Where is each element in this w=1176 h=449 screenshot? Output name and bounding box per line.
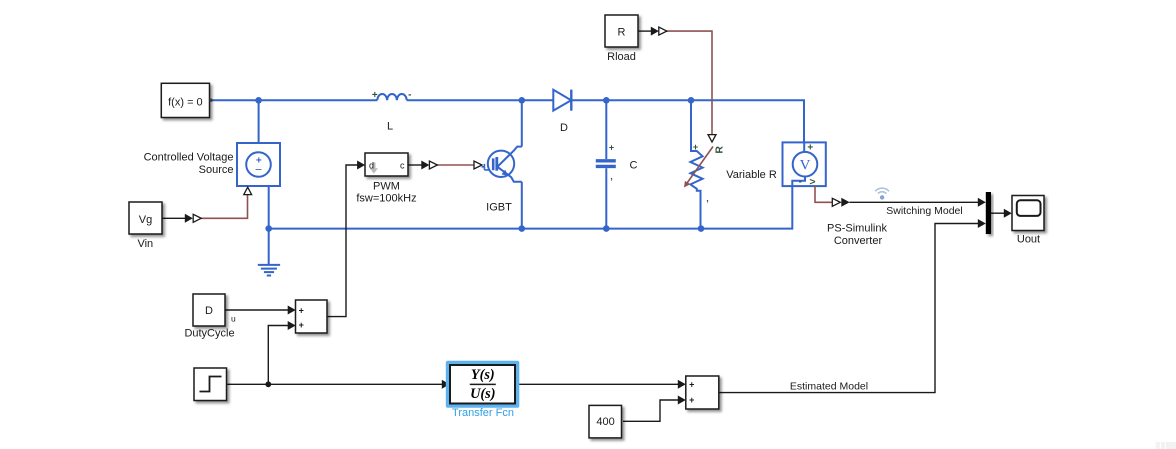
svg-text:DutyCycle: DutyCycle	[184, 327, 234, 339]
svg-text:PWM: PWM	[373, 181, 400, 193]
svg-text:Uout: Uout	[1017, 234, 1040, 246]
svg-text:+: +	[689, 395, 694, 405]
svg-text:Y(s): Y(s)	[471, 367, 495, 383]
svg-text:400: 400	[596, 416, 614, 428]
svg-text:L: L	[387, 121, 393, 133]
svg-text:+: +	[299, 306, 304, 316]
svg-text:f(x) = 0: f(x) = 0	[168, 96, 203, 108]
svg-text:R: R	[713, 146, 725, 154]
svg-text:D: D	[560, 122, 568, 134]
svg-text:Controlled Voltage: Controlled Voltage	[144, 152, 234, 164]
svg-text:d: d	[369, 160, 374, 170]
svg-text:D: D	[205, 305, 213, 317]
svg-text:Variable R: Variable R	[726, 169, 777, 181]
svg-text:Switching Model: Switching Model	[886, 205, 962, 217]
svg-text:Rload: Rload	[607, 51, 636, 63]
svg-text:C: C	[630, 160, 638, 172]
svg-text:-: -	[799, 177, 802, 187]
svg-text:fsw=100kHz: fsw=100kHz	[356, 193, 416, 205]
svg-text:−: −	[255, 163, 262, 177]
svg-text:’: ’	[610, 177, 613, 187]
svg-text:Converter: Converter	[834, 235, 883, 247]
svg-text:+: +	[299, 320, 304, 330]
svg-text:-: -	[408, 90, 411, 101]
svg-text:Transfer Fcn: Transfer Fcn	[452, 407, 514, 419]
svg-text:Vg: Vg	[139, 214, 152, 226]
svg-text:+: +	[807, 143, 813, 154]
svg-text:IGBT: IGBT	[486, 202, 512, 214]
svg-text:U(s): U(s)	[470, 386, 495, 402]
svg-text:c: c	[400, 160, 405, 170]
svg-text:V: V	[800, 157, 811, 173]
svg-text:Vin: Vin	[137, 238, 153, 250]
svg-text:+: +	[372, 90, 378, 101]
svg-text:R: R	[618, 27, 626, 39]
svg-text:+: +	[609, 143, 614, 153]
svg-text:’: ’	[706, 199, 709, 209]
svg-text:Estimated Model: Estimated Model	[790, 380, 868, 392]
svg-text:+: +	[689, 379, 694, 389]
svg-text:u: u	[231, 314, 236, 324]
svg-text:PS-Simulink: PS-Simulink	[827, 223, 887, 235]
svg-text:Source: Source	[199, 164, 234, 176]
svg-text:+: +	[693, 142, 698, 152]
